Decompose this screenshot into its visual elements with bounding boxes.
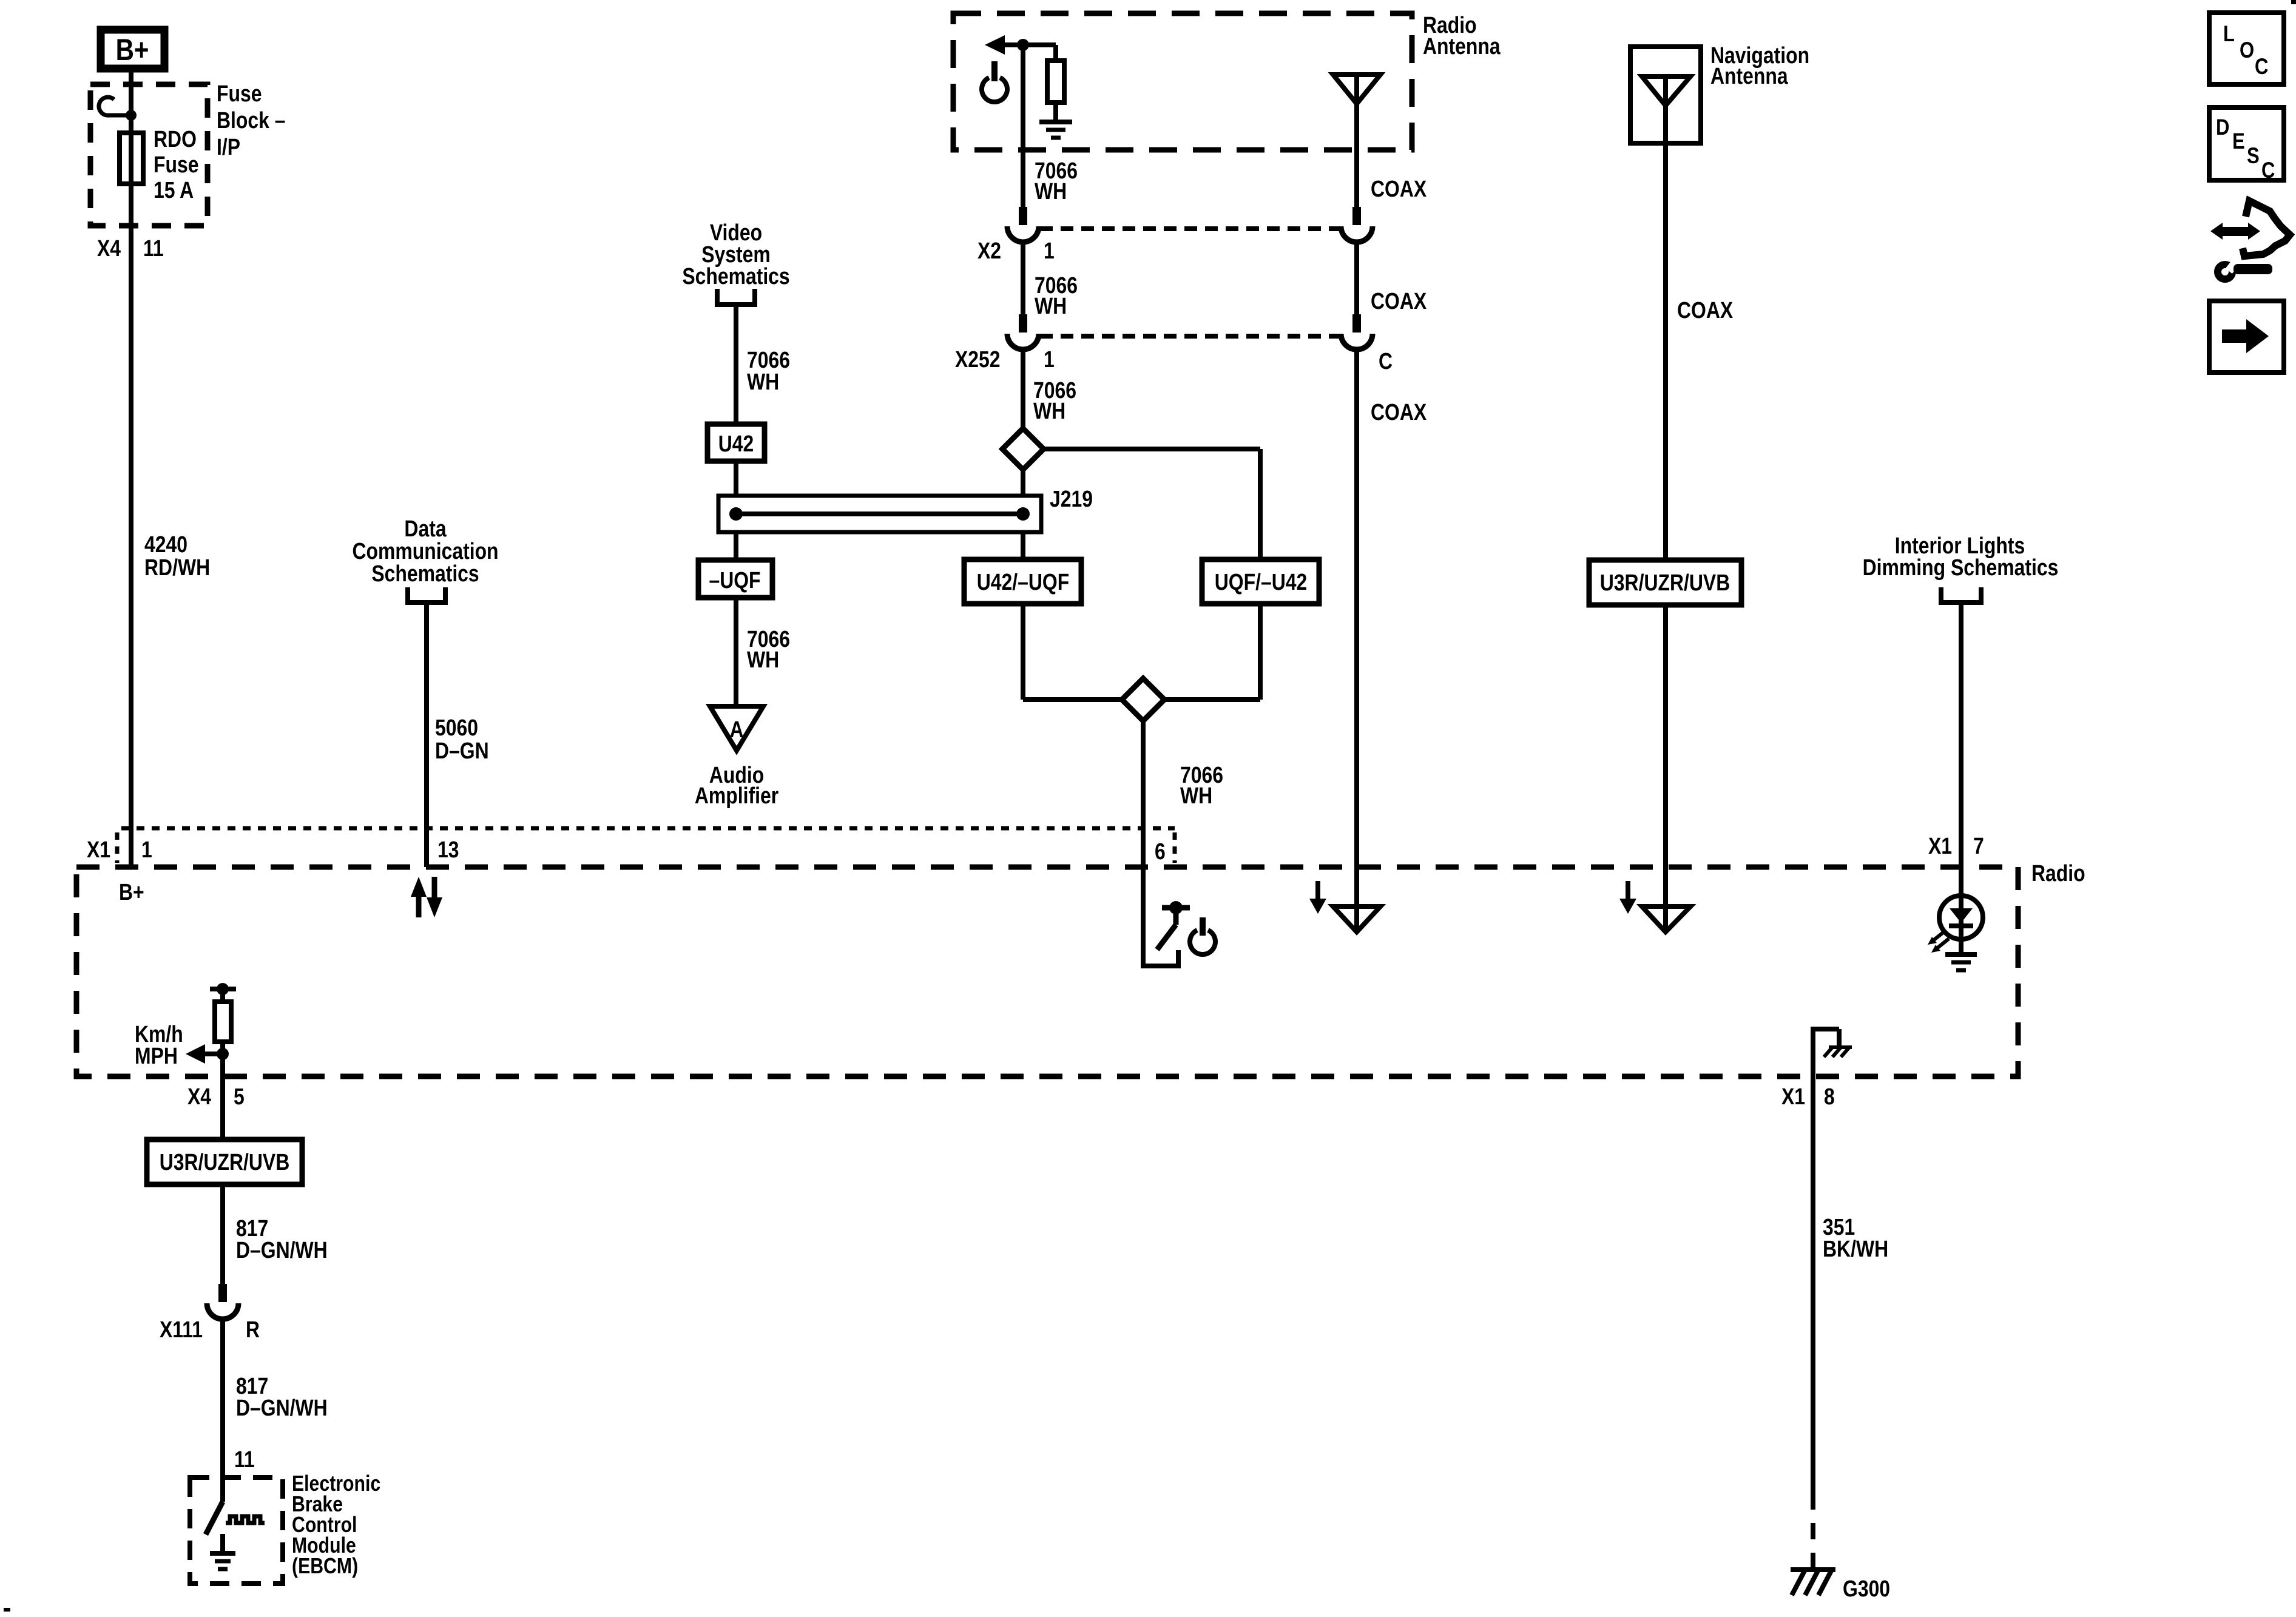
svg-text:WH: WH (747, 369, 779, 394)
svg-text:E: E (2232, 129, 2245, 154)
svg-text:L: L (2223, 22, 2235, 47)
svg-text:15 A: 15 A (154, 177, 194, 203)
svg-text:Antenna: Antenna (1710, 63, 1788, 89)
svg-text:13: 13 (437, 837, 459, 862)
svg-text:Fuse: Fuse (154, 152, 198, 177)
svg-text:5060: 5060 (435, 715, 478, 740)
svg-text:O: O (2240, 38, 2254, 63)
svg-text:C: C (1379, 348, 1393, 374)
svg-text:RD/WH: RD/WH (144, 555, 210, 580)
svg-text:U42: U42 (718, 431, 754, 456)
svg-text:Block –: Block – (217, 107, 286, 133)
svg-text:G300: G300 (1843, 1576, 1890, 1601)
svg-text:WH: WH (747, 647, 779, 672)
svg-text:WH: WH (1035, 178, 1067, 204)
svg-text:Antenna: Antenna (1423, 33, 1501, 59)
svg-text:1: 1 (141, 837, 152, 862)
svg-text:X1: X1 (1928, 833, 1952, 859)
svg-text:Data: Data (404, 516, 447, 541)
svg-text:8: 8 (1824, 1084, 1835, 1109)
svg-text:X1: X1 (1781, 1084, 1805, 1109)
svg-text:COAX: COAX (1677, 297, 1734, 323)
svg-text:BK/WH: BK/WH (1823, 1236, 1888, 1261)
svg-text:C: C (2255, 55, 2268, 79)
svg-text:I/P: I/P (217, 134, 240, 160)
svg-text:UQF/–U42: UQF/–U42 (1215, 569, 1308, 595)
svg-text:U42/–UQF: U42/–UQF (977, 569, 1070, 595)
svg-text:X252: X252 (955, 346, 1001, 372)
svg-text:Amplifier: Amplifier (695, 783, 779, 808)
svg-text:B+: B+ (116, 33, 149, 67)
svg-text:5: 5 (234, 1084, 245, 1109)
svg-text:6: 6 (1155, 839, 1166, 864)
svg-text:J219: J219 (1050, 486, 1093, 511)
svg-text:U3R/UZR/UVB: U3R/UZR/UVB (1600, 570, 1730, 595)
svg-text:C: C (2261, 158, 2275, 183)
svg-text:D–GN/WH: D–GN/WH (236, 1395, 328, 1420)
svg-text:(EBCM): (EBCM) (292, 1555, 358, 1579)
svg-text:4240: 4240 (144, 532, 187, 557)
svg-text:–UQF: –UQF (709, 567, 760, 593)
svg-text:S: S (2247, 144, 2260, 169)
svg-text:Fuse: Fuse (217, 81, 262, 106)
svg-text:Radio: Radio (2031, 860, 2085, 886)
svg-text:COAX: COAX (1371, 399, 1427, 425)
svg-text:MPH: MPH (135, 1043, 178, 1068)
svg-text:Schematics: Schematics (682, 263, 789, 289)
svg-text:1: 1 (1044, 238, 1055, 263)
svg-text:D–GN: D–GN (435, 738, 489, 763)
svg-text:WH: WH (1035, 293, 1067, 319)
svg-text:X111: X111 (160, 1317, 203, 1342)
svg-text:1: 1 (1044, 346, 1055, 372)
svg-text:B+: B+ (119, 879, 144, 905)
svg-text:Dimming Schematics: Dimming Schematics (1863, 555, 2059, 580)
svg-text:Schematics: Schematics (371, 561, 479, 586)
svg-text:R: R (246, 1317, 260, 1342)
svg-text:A: A (729, 717, 743, 742)
svg-text:X4: X4 (97, 235, 121, 261)
svg-text:11: 11 (234, 1447, 255, 1472)
svg-text:X4: X4 (187, 1084, 211, 1109)
svg-text:WH: WH (1180, 783, 1212, 808)
svg-text:RDO: RDO (154, 126, 197, 152)
svg-text:11: 11 (143, 235, 164, 261)
svg-text:X1: X1 (87, 837, 110, 862)
svg-text:U3R/UZR/UVB: U3R/UZR/UVB (160, 1149, 290, 1175)
svg-text:COAX: COAX (1371, 176, 1427, 201)
svg-text:D–GN/WH: D–GN/WH (236, 1237, 328, 1263)
svg-text:X2: X2 (977, 238, 1001, 263)
svg-text:WH: WH (1033, 398, 1065, 424)
svg-text:D: D (2216, 115, 2229, 140)
svg-text:COAX: COAX (1371, 288, 1427, 314)
svg-text:7: 7 (1973, 833, 1984, 859)
svg-text:Communication: Communication (352, 538, 498, 564)
